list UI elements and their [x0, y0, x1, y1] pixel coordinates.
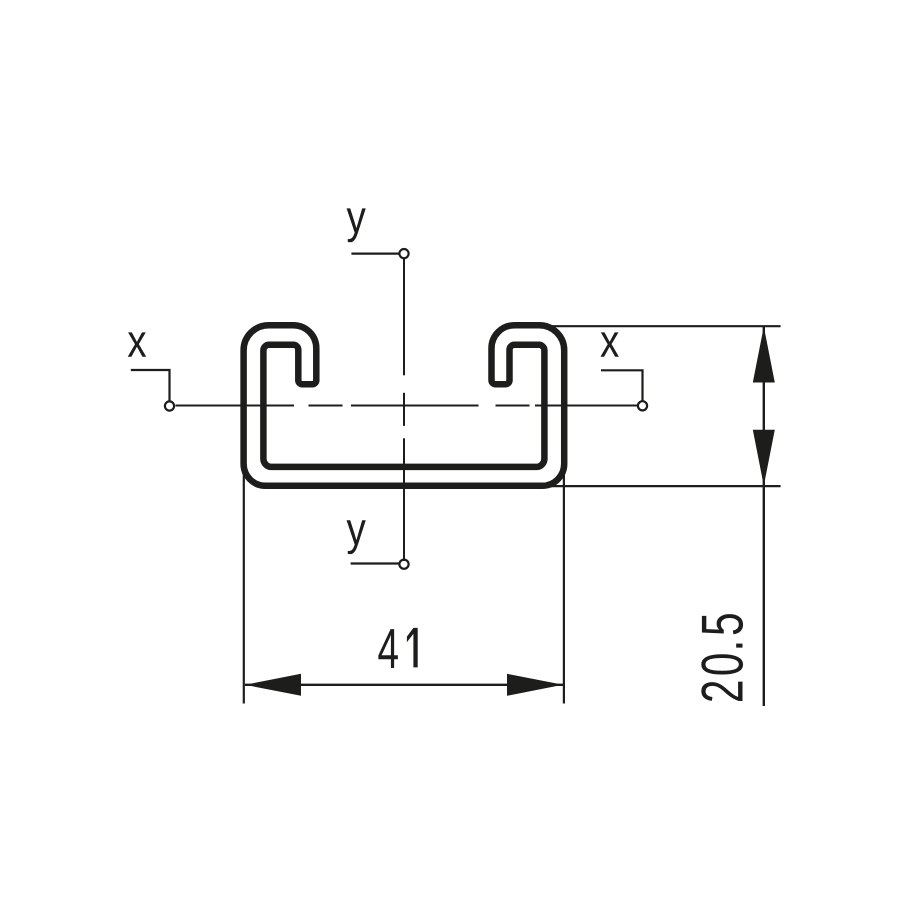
dimension 41: value text: [378, 629, 398, 668]
x right leader polyline: [601, 370, 643, 401]
dimension 41: left extension line: [243, 472, 245, 704]
x right node circle: [638, 401, 647, 410]
strut channel profile outline (41x20.5 C-section): [244, 325, 565, 486]
dimension 41: left arrowhead: [245, 674, 301, 696]
axis label x (right): [600, 332, 618, 356]
x left leader polyline: [131, 370, 170, 401]
axis label x (left): [128, 332, 146, 356]
horizontal centerline x-x (dashed): [176, 405, 638, 407]
y top leader line: [351, 253, 399, 255]
dimension 41: dimension line: [245, 684, 563, 686]
dimension 20.5: top extension line: [552, 325, 781, 327]
axis label y (bottom): [347, 520, 366, 554]
dimension 20.5: top arrowhead: [753, 327, 775, 383]
axis label y (top): [347, 208, 366, 242]
dimension 41: right extension line: [563, 472, 565, 704]
y bottom leader line: [351, 562, 400, 564]
dimension 20.5: value text (rotated): [701, 682, 742, 701]
y bottom node circle: [399, 560, 408, 569]
x left node circle: [165, 401, 174, 410]
dimension 20.5: bottom arrowhead: [753, 430, 775, 486]
dimension 20.5: dimension line: [763, 326, 765, 706]
dimension 41: right arrowhead: [507, 674, 563, 696]
dimension 20.5: bottom extension line: [549, 485, 781, 487]
vertical centerline y-y (dashed): [403, 259, 405, 561]
y top node circle: [399, 249, 408, 258]
